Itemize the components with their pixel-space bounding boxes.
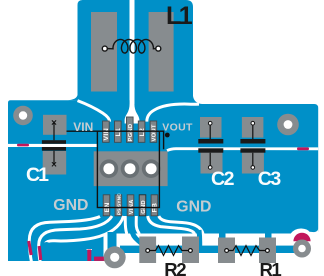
tab for inductor left terminal — [78, 0, 130, 120]
svg-text:C3: C3 — [258, 168, 282, 190]
pin PGND (top) — [127, 117, 135, 142]
copper gap: EN/PS trace divider line — [39, 216, 112, 262]
via bottom-left — [104, 246, 126, 268]
svg-text:L1: L1 — [166, 2, 193, 30]
blue patch over PS gap end — [42, 242, 51, 251]
resistor R2 symbol — [146, 246, 193, 256]
magenta mark: island right gap — [87, 250, 91, 262]
copper gap: FB trace east line — [159, 216, 203, 234]
IC thermal via 3 — [142, 159, 161, 178]
magenta mark: EN west corner — [29, 241, 32, 255]
pad: inductor right — [149, 12, 174, 92]
svg-text:GND: GND — [176, 199, 211, 216]
board copper pour (main) — [8, 100, 318, 261]
copper gap: PS trace south line — [46, 216, 124, 244]
copper gap: GND/FB divider line — [148, 216, 195, 234]
wire: VOUT pin to split line — [157, 131, 164, 149]
pin GND (bottom) — [139, 195, 147, 216]
pad: R1 right — [259, 238, 276, 264]
svg-text:PS/SYNC: PS/SYNC — [117, 193, 123, 216]
trace: island neck to bottom-left via — [108, 232, 117, 250]
resistor R1 symbol — [225, 246, 270, 256]
copper gap: VIN/GND split line left — [8, 144, 98, 147]
trace: FB drop to band — [197, 230, 203, 248]
copper gap: VOUT / tab-right boundary — [147, 104, 199, 122]
IC body U1 — [94, 151, 168, 186]
mounting hole top-left — [13, 106, 33, 126]
pin EN (bottom) — [103, 195, 111, 216]
svg-text:VOUT: VOUT — [162, 121, 193, 133]
capacitor C1 symbol — [42, 120, 66, 166]
trace: VINA to R2 left pad — [132, 230, 144, 246]
pad: R2 right — [182, 237, 199, 264]
pad: R2 left — [139, 237, 156, 264]
copper gap: slot between tabs with teardrop around PGND — [125, 0, 140, 124]
svg-text:PGND: PGND — [128, 124, 134, 142]
svg-text:L2: L2 — [139, 128, 146, 137]
pin VOUT (top) — [150, 121, 158, 142]
magenta mark: cap on bottom-right via — [293, 233, 310, 242]
copper gap: VOUT/GND split line right — [167, 149, 318, 151]
board concave fillet left — [68, 95, 78, 100]
pin FB (bottom) — [151, 195, 159, 216]
IC thermal via 1 — [100, 159, 119, 178]
svg-text:VOUT: VOUT — [152, 124, 158, 141]
copper gap: VINA trace east line — [136, 216, 139, 234]
magenta mark: on left split line — [17, 144, 29, 147]
magenta mark: bottom trace to via — [94, 257, 110, 261]
capacitor C2 symbol — [198, 121, 223, 169]
pad: C2 top — [200, 117, 222, 138]
pin L2 (top) — [138, 121, 146, 142]
tab for inductor right terminal — [135, 0, 194, 120]
copper gap: VINA trace west line — [125, 216, 127, 234]
pad: C2 bottom — [201, 152, 223, 173]
pin VINA (bottom) — [127, 195, 135, 216]
svg-text:VIN: VIN — [73, 120, 93, 134]
svg-text:R2: R2 — [164, 259, 186, 276]
pad: C3 top — [242, 117, 264, 138]
inductor L1 symbol — [102, 40, 161, 54]
pad: R1 left — [218, 238, 235, 264]
no-copper zone bottom-right — [104, 228, 319, 276]
pad: C3 bottom — [242, 152, 264, 173]
pad: inductor left — [91, 12, 117, 92]
svg-text:R1: R1 — [260, 259, 282, 276]
IC thermal via 2 — [121, 159, 140, 178]
mounting hole top-right — [277, 114, 299, 136]
copper gap: VIN / tab-left boundary — [78, 101, 110, 122]
svg-text:C1: C1 — [26, 164, 49, 186]
copper gap: EN trace west line — [29, 217, 100, 263]
node: VOUT junction dot — [165, 133, 170, 138]
svg-text:L1: L1 — [115, 128, 122, 137]
svg-text:VIN: VIN — [103, 128, 110, 141]
magenta mark: EN/PS corner — [39, 246, 41, 260]
capacitor C3 symbol — [240, 121, 265, 169]
pad: C1 bottom — [43, 151, 66, 175]
trace: R1/R2 connection band — [120, 246, 302, 253]
wire: C1 to IC — [67, 130, 98, 132]
pin L1 (top) — [115, 121, 123, 142]
pin VIN (top) — [103, 121, 111, 142]
trace: neck to R1 right pad — [265, 232, 272, 240]
pin PS/SYNC (bottom) — [115, 193, 123, 216]
board concave fillet right — [193, 96, 202, 104]
pad: C1 top — [43, 115, 67, 135]
svg-text:C2: C2 — [211, 168, 235, 190]
svg-text:VINA: VINA — [129, 199, 135, 214]
svg-text:GND: GND — [53, 197, 88, 214]
trace: neck to R1 left pad — [219, 232, 226, 240]
via bottom-right — [293, 240, 311, 258]
magenta mark: on right split line — [297, 147, 309, 150]
IC outline U1 — [97, 131, 159, 207]
